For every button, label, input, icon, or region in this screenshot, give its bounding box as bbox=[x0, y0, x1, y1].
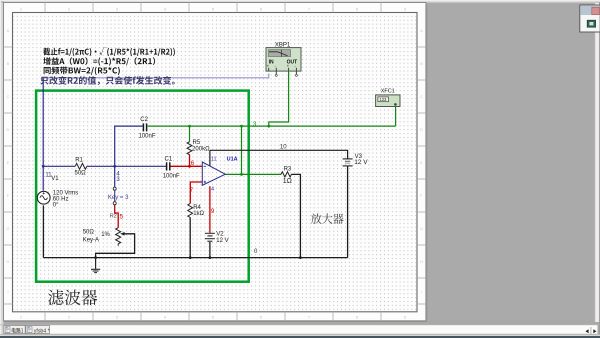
resistor R3 bbox=[281, 172, 291, 177]
svg-text:1kΩ: 1kΩ bbox=[193, 211, 204, 217]
sheet inner border line bbox=[13, 13, 418, 312]
wire net 7 op-amp + input to R4 bbox=[190, 182, 202, 204]
wire net 10 op-amp V+ stub bbox=[209, 150, 211, 166]
wire V2 minus to ground rail bbox=[209, 242, 211, 258]
svg-text:V1: V1 bbox=[51, 176, 59, 182]
instrument XFC1 frequency counter bbox=[376, 95, 400, 107]
svg-text:R4: R4 bbox=[193, 205, 201, 211]
wire net 3 R5 top stub bbox=[189, 126, 191, 142]
label 放大器 (amplifier) bbox=[311, 213, 344, 224]
XBP1 terminal pins bbox=[269, 68, 297, 75]
capacitor C2 bbox=[143, 123, 146, 131]
wire V1 minus to ground rail bbox=[42, 205, 44, 257]
svg-text:R2: R2 bbox=[110, 214, 117, 220]
tab1 text 电路1 bbox=[12, 328, 23, 333]
status bar dark strip bbox=[0, 336, 600, 338]
filter box green rectangle bbox=[36, 91, 249, 282]
svg-text:D: D bbox=[420, 127, 423, 132]
svg-text:1Ω: 1Ω bbox=[283, 178, 292, 185]
wire net 4 node A riser to C2 bbox=[115, 126, 143, 166]
svg-text:G: G bbox=[6, 226, 9, 231]
wire node A to switch bbox=[114, 166, 116, 187]
wire net 3 jog to XBP1 OUT bbox=[269, 71, 289, 126]
svg-text:C1: C1 bbox=[165, 156, 173, 162]
wire potentiometer wiper return bbox=[96, 234, 135, 258]
wire net 10 supply rail to V3 bbox=[210, 150, 348, 159]
vertical scrollbar bbox=[595, 3, 600, 322]
svg-text:B: B bbox=[7, 61, 10, 66]
svg-text:A: A bbox=[420, 28, 423, 33]
svg-text:A: A bbox=[7, 28, 10, 33]
svg-text:B: B bbox=[420, 61, 423, 66]
svg-text:Key = 3: Key = 3 bbox=[108, 195, 129, 201]
annotation line 1 cutoff formula bbox=[43, 48, 175, 57]
svg-text:R3: R3 bbox=[284, 167, 292, 173]
wire net 3 op-amp output to R3 bbox=[225, 173, 281, 175]
sheet top/bottom margin dividers bbox=[45, 3, 381, 321]
sheet bottom shadow bbox=[4, 321, 426, 323]
scrollbar left arrow bbox=[585, 329, 588, 333]
svg-text:E: E bbox=[7, 160, 10, 165]
sheet right shadow bbox=[426, 5, 428, 321]
wire net 4 R1 to C1 bbox=[87, 165, 166, 167]
source V1 circle bbox=[37, 191, 50, 204]
sheet tab 2 bbox=[26, 325, 50, 333]
svg-text:U1A: U1A bbox=[227, 156, 238, 162]
annotation line 4 note about R2 bbox=[40, 76, 174, 85]
svg-text:XFC1: XFC1 bbox=[381, 89, 395, 95]
svg-text:50Ω: 50Ω bbox=[75, 170, 87, 176]
svg-text:C: C bbox=[7, 94, 10, 99]
svg-text:11: 11 bbox=[45, 172, 52, 178]
gray area right of sheet bbox=[427, 3, 596, 321]
window edge highlight bbox=[0, 0, 600, 1]
svg-text:D: D bbox=[7, 127, 10, 132]
battery V3 bbox=[343, 159, 353, 166]
gray strip below sheet bbox=[4, 321, 596, 325]
svg-text:R5: R5 bbox=[193, 140, 201, 146]
svg-text:123: 123 bbox=[379, 97, 387, 102]
svg-text:XBP1: XBP1 bbox=[275, 42, 291, 48]
wire net 9 op-amp V- to V2 bbox=[209, 186, 211, 233]
annotation line 2 gain formula bbox=[43, 57, 155, 66]
svg-text:200kΩ: 200kΩ bbox=[192, 147, 210, 153]
sheet tab 1 bbox=[4, 325, 25, 333]
svg-text:yfsb4 *: yfsb4 * bbox=[34, 328, 50, 334]
label 滤波器 (filter) bbox=[48, 290, 97, 306]
svg-text:R1: R1 bbox=[75, 158, 83, 164]
sheet margin index letters bbox=[6, 28, 423, 294]
wire net 3 riser to op-amp output bbox=[241, 126, 243, 174]
wire net 11 V1 to R1 bbox=[43, 165, 75, 167]
svg-text:50Ω: 50Ω bbox=[83, 230, 95, 236]
switch J1 terminals bbox=[113, 187, 116, 205]
status bar light strip bbox=[0, 335, 600, 336]
instrument XBP1 bode plotter bbox=[266, 48, 301, 72]
svg-text:11: 11 bbox=[211, 157, 217, 163]
svg-text:100nF: 100nF bbox=[163, 174, 180, 180]
svg-text:100nF: 100nF bbox=[139, 133, 156, 139]
wire R4 to ground rail bbox=[189, 218, 191, 258]
sheet left/right margin dividers bbox=[4, 47, 426, 304]
wire V3 minus to ground rail bbox=[347, 166, 349, 258]
svg-text:IN: IN bbox=[269, 59, 274, 65]
resistor R1 bbox=[75, 163, 87, 169]
svg-text:I: I bbox=[7, 289, 8, 294]
svg-text:1%: 1% bbox=[101, 232, 110, 238]
battery V2 bbox=[205, 233, 215, 241]
wire net 6 R5 bottom stub bbox=[189, 154, 191, 166]
ground symbol bbox=[91, 258, 100, 273]
wire junction dots bbox=[42, 125, 302, 259]
svg-text:H: H bbox=[420, 259, 423, 264]
sheet outer area bbox=[4, 3, 426, 321]
svg-text:4: 4 bbox=[211, 187, 214, 193]
svg-text:V2: V2 bbox=[216, 232, 224, 238]
svg-text:Key-A: Key-A bbox=[83, 238, 99, 244]
sheet outer border line bbox=[4, 3, 426, 321]
potentiometer R2 zigzag bbox=[116, 228, 121, 246]
scrollbar right arrow bbox=[593, 329, 596, 333]
XFC1 terminal bbox=[394, 103, 397, 106]
wire net 5 switch to potentiometer bbox=[115, 205, 119, 228]
svg-text:12 V: 12 V bbox=[354, 159, 368, 166]
resistor R5 bbox=[187, 142, 192, 155]
potentiometer R2 wiper arrow bbox=[120, 232, 124, 236]
floating toolbar window bbox=[580, 5, 600, 32]
svg-text:0°: 0° bbox=[53, 202, 59, 208]
wire net 3 C2 to XFC1 horizontal bbox=[148, 125, 396, 127]
annotation line 3 bandwidth formula bbox=[44, 67, 120, 75]
bottom scrollbar track bbox=[4, 325, 598, 334]
wire ground rail net 0 bbox=[43, 257, 347, 259]
svg-text:E: E bbox=[420, 160, 423, 165]
vertical scrollbar border bbox=[594, 3, 596, 322]
svg-text:C: C bbox=[420, 94, 423, 99]
XBP1 terminal polarity marks bbox=[267, 64, 297, 69]
wire R3 to ground drop bbox=[291, 174, 300, 257]
wire net 3 drop from XFC1 bbox=[395, 105, 397, 127]
wire net 11 from XBP1 IN to input node bbox=[43, 74, 269, 78]
op-amp U1A bbox=[202, 162, 225, 185]
workspace dotted grid bbox=[13, 13, 416, 311]
sheet margin index numbers bbox=[20, 7, 407, 320]
svg-text:I: I bbox=[421, 289, 422, 294]
resistor R4 bbox=[188, 204, 193, 218]
wire net 11 vertical V1 to junction bbox=[42, 78, 44, 191]
svg-text:H: H bbox=[7, 259, 10, 264]
capacitor C1 bbox=[167, 162, 170, 170]
status bar separator bbox=[0, 333, 600, 336]
svg-text:12 V: 12 V bbox=[216, 238, 228, 244]
svg-text:G: G bbox=[420, 226, 423, 231]
scroll row top border bbox=[0, 324, 600, 326]
scrollbar divider bbox=[590, 327, 592, 334]
svg-text:C2: C2 bbox=[140, 117, 148, 123]
wire net 6 C1 to op-amp inverting input bbox=[170, 165, 202, 167]
svg-text:10: 10 bbox=[280, 144, 287, 150]
